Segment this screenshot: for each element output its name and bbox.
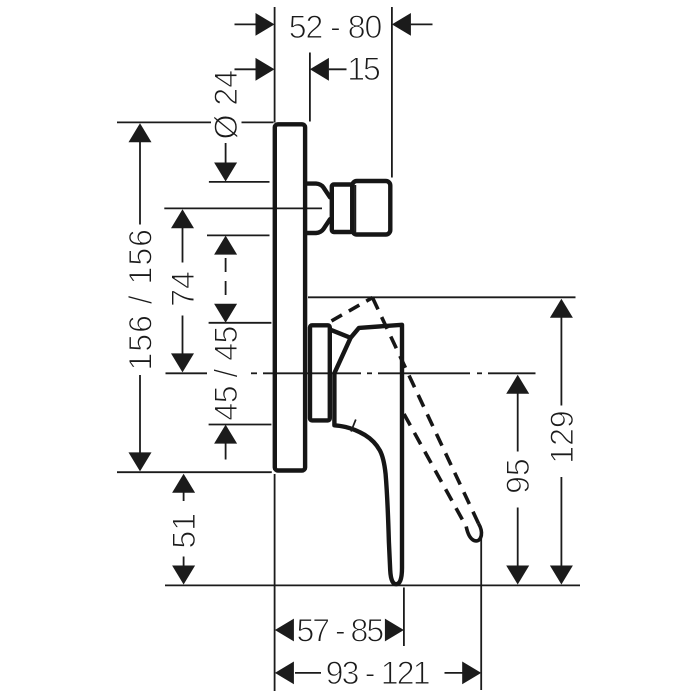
svg-text:51: 51 [166, 513, 202, 549]
svg-text:129: 129 [544, 410, 580, 463]
svg-text:15: 15 [347, 51, 380, 87]
svg-text:74: 74 [165, 271, 201, 307]
svg-text:52 - 80: 52 - 80 [289, 9, 382, 45]
svg-text:45 / 45: 45 / 45 [208, 326, 244, 420]
svg-text:Ø 24: Ø 24 [208, 70, 244, 139]
svg-text:95: 95 [500, 458, 536, 494]
svg-text:93 - 121: 93 - 121 [326, 655, 430, 691]
svg-text:57 - 85: 57 - 85 [296, 612, 383, 648]
svg-text:156 / 156: 156 / 156 [123, 228, 159, 370]
